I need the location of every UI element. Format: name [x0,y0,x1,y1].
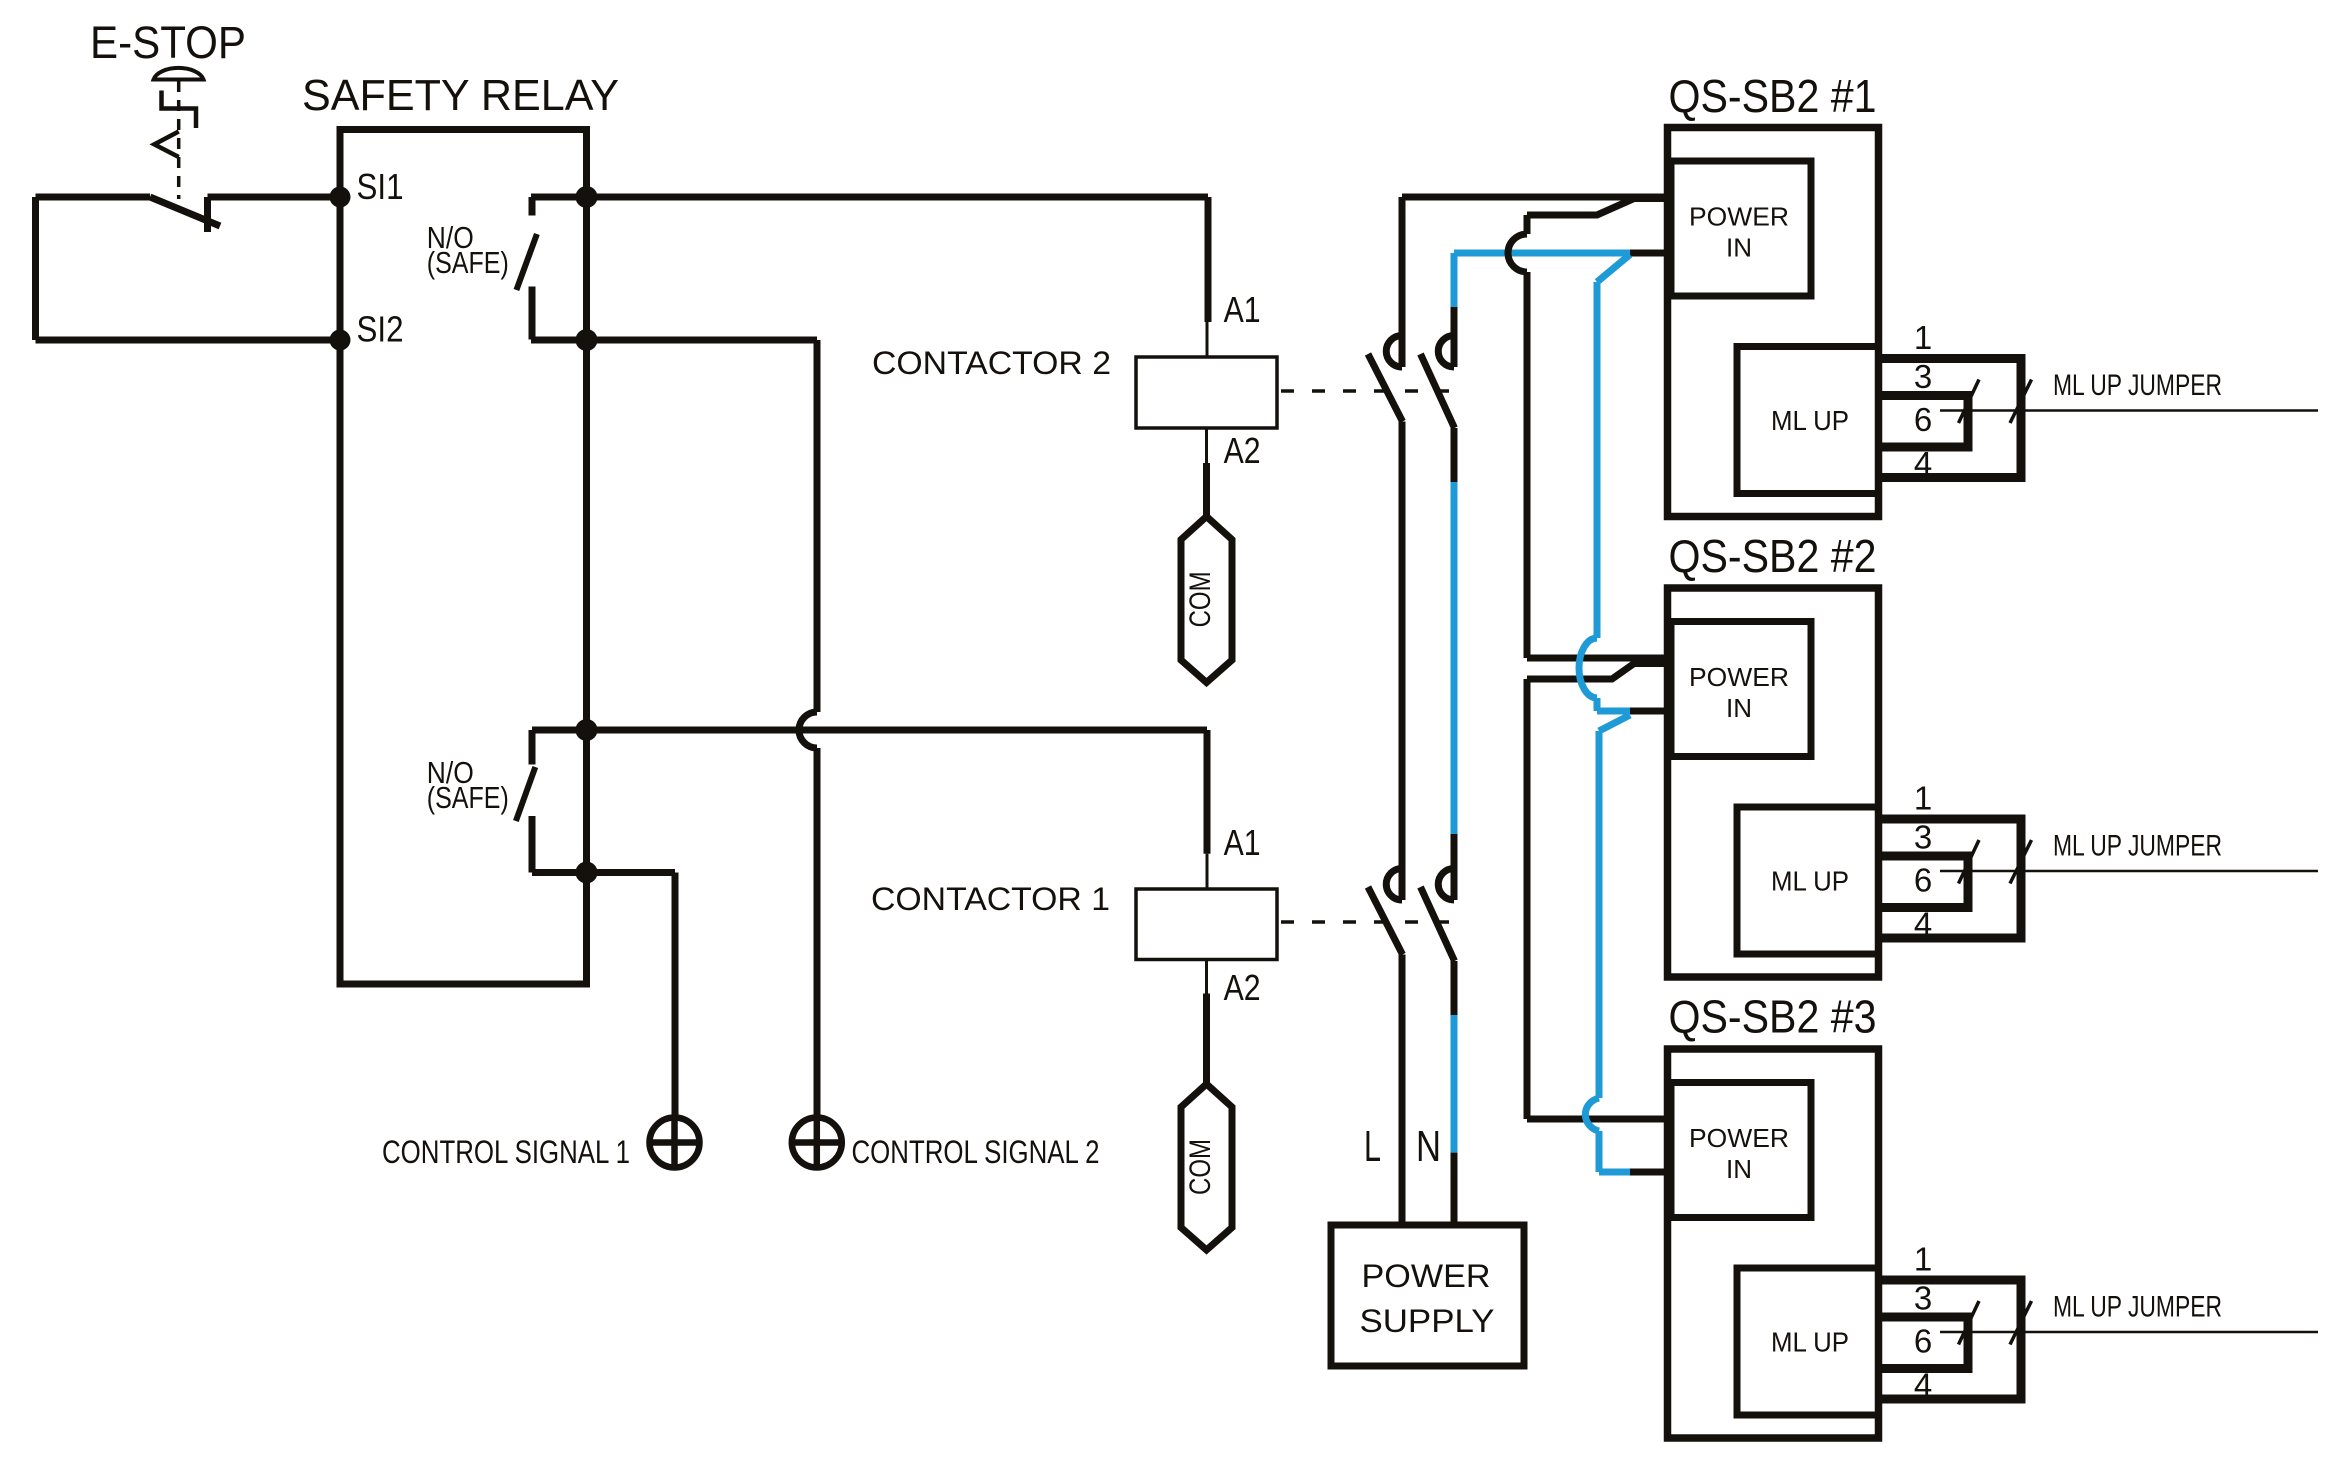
svg-text:N: N [1416,1122,1441,1171]
svg-text:(SAFE): (SAFE) [427,780,509,815]
svg-text:SI1: SI1 [357,166,404,207]
svg-text:COM: COM [1184,571,1217,627]
svg-text:A1: A1 [1224,289,1261,330]
svg-text:SAFETY RELAY: SAFETY RELAY [302,71,619,120]
svg-text:CONTACTOR 1: CONTACTOR 1 [871,881,1110,917]
svg-text:L: L [1364,1122,1381,1171]
svg-text:CONTACTOR 2: CONTACTOR 2 [872,345,1111,381]
svg-text:A1: A1 [1224,822,1261,863]
svg-text:QS-SB2 #1: QS-SB2 #1 [1669,70,1877,122]
svg-text:A2: A2 [1224,430,1261,471]
svg-text:QS-SB2 #3: QS-SB2 #3 [1669,991,1877,1043]
svg-text:(SAFE): (SAFE) [427,245,509,280]
svg-text:E-STOP: E-STOP [90,17,246,68]
svg-text:SUPPLY: SUPPLY [1360,1303,1495,1339]
svg-text:SI2: SI2 [357,309,404,350]
svg-text:QS-SB2 #2: QS-SB2 #2 [1669,530,1877,582]
svg-text:POWER: POWER [1362,1258,1491,1294]
svg-text:COM: COM [1184,1139,1217,1195]
svg-text:A2: A2 [1224,967,1261,1008]
svg-text:CONTROL SIGNAL 1: CONTROL SIGNAL 1 [382,1134,630,1170]
svg-text:CONTROL SIGNAL 2: CONTROL SIGNAL 2 [852,1134,1100,1170]
